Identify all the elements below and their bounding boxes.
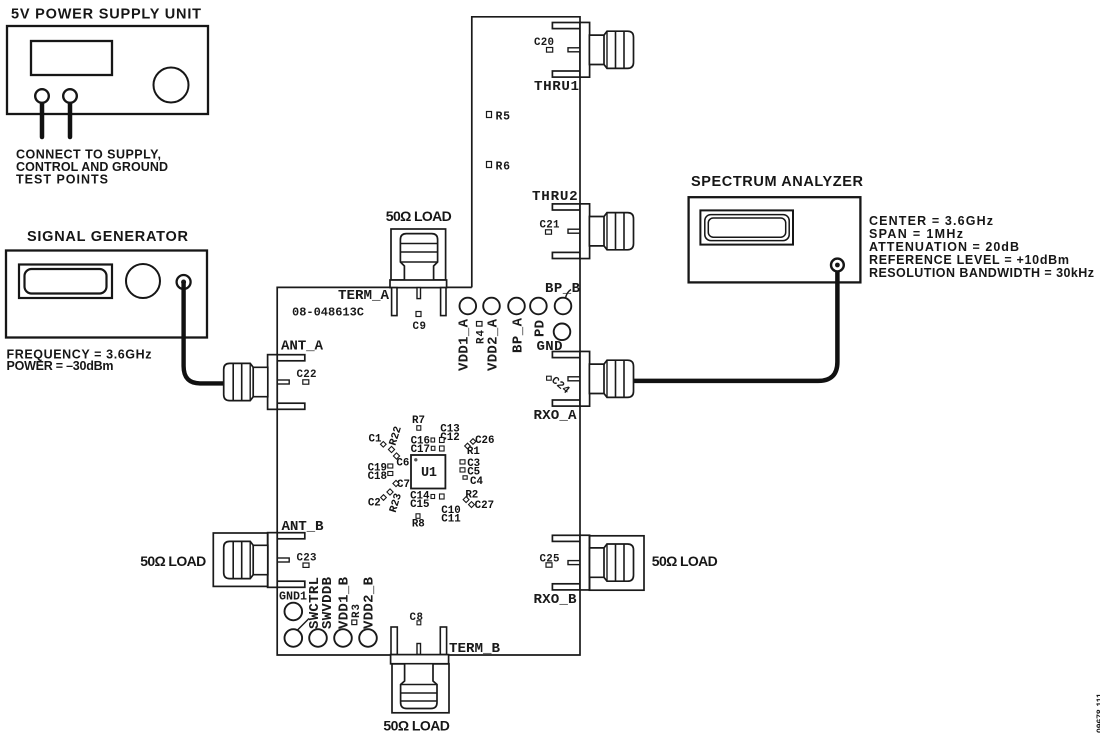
svg-text:C15: C15 — [410, 499, 429, 511]
signal generator RF output connector — [177, 275, 191, 289]
figure number — [1095, 693, 1100, 733]
svg-text:SIGNAL GENERATOR: SIGNAL GENERATOR — [27, 229, 189, 245]
test point VDD1_B — [334, 629, 352, 647]
cable from RXO_A to spectrum analyzer — [634, 266, 838, 381]
svg-text:SWVDDB: SWVDDB — [320, 576, 336, 629]
BP_B leader line — [566, 290, 572, 298]
svg-text:R8: R8 — [412, 519, 425, 531]
svg-text:C1: C1 — [369, 434, 382, 446]
svg-text:R5: R5 — [496, 111, 511, 124]
test point VDD1_A — [460, 298, 477, 315]
SMA connector THRU2 — [552, 204, 633, 259]
SMA connector RXO_B — [552, 535, 633, 590]
TERM_A pin — [417, 288, 421, 299]
svg-text:C27: C27 — [475, 500, 494, 512]
cluster pads — [380, 426, 475, 519]
pad C1 — [380, 441, 386, 447]
board outline — [277, 17, 580, 655]
pads C26 — [465, 443, 471, 449]
test point GND1 — [285, 603, 303, 621]
test point VDD2_A — [483, 298, 500, 315]
pads R2 C27 — [463, 497, 469, 503]
TERM_A barrel — [400, 234, 437, 281]
svg-text:BP_B: BP_B — [545, 281, 581, 297]
op-amp U1 — [411, 455, 445, 489]
TERM_B bracket bar — [391, 655, 449, 664]
terminal 1 — [35, 89, 49, 103]
svg-text:ANT_A: ANT_A — [281, 339, 323, 355]
resistor R6 — [487, 162, 492, 168]
capacitor C24 (rotated label) — [548, 375, 571, 397]
SMA connector RXO_A — [552, 351, 633, 406]
svg-text:50Ω LOAD: 50Ω LOAD — [652, 553, 718, 569]
pads C7 chain — [393, 480, 399, 486]
spectrum analyzer display — [700, 210, 793, 244]
svg-text:C17: C17 — [411, 444, 430, 456]
resistor R3 — [351, 604, 363, 618]
svg-text:50Ω LOAD: 50Ω LOAD — [383, 718, 450, 734]
pads C19 C18 — [388, 464, 393, 468]
svg-text:5V POWER SUPPLY UNIT: 5V POWER SUPPLY UNIT — [11, 7, 201, 23]
svg-text:RXO_A: RXO_A — [534, 408, 577, 424]
svg-text:RESOLUTION BANDWIDTH = 30kHz: RESOLUTION BANDWIDTH = 30kHz — [869, 266, 1094, 280]
TERM_B posts — [391, 627, 397, 655]
pads C16 C17 — [431, 438, 435, 442]
svg-text:GND1: GND1 — [279, 590, 307, 604]
power supply knob — [154, 68, 189, 103]
spectrum analyzer input connector — [831, 259, 844, 272]
SMA connector ANT_A — [224, 355, 305, 410]
svg-text:ANT_B: ANT_B — [282, 519, 324, 535]
svg-text:50Ω LOAD: 50Ω LOAD — [386, 208, 452, 224]
svg-text:SPECTRUM ANALYZER: SPECTRUM ANALYZER — [691, 174, 864, 190]
pads C14 C15 — [431, 495, 435, 499]
svg-text:TERM_B: TERM_B — [449, 641, 500, 657]
resistor R23 — [388, 492, 405, 514]
svg-text:C2: C2 — [368, 498, 381, 510]
resistor R22 — [388, 425, 405, 447]
TERM_B pin — [417, 644, 421, 655]
test point BP_A — [508, 298, 525, 315]
svg-text:CENTER = 3.6GHz: CENTER = 3.6GHz — [869, 214, 993, 228]
test point VDD2_B — [359, 629, 377, 647]
svg-text:09678-111: 09678-111 — [1095, 693, 1100, 733]
signal generator knob — [126, 264, 160, 298]
50 ohm load box TERM_A — [391, 229, 446, 280]
50 ohm load box on RXO_B — [589, 536, 644, 590]
power supply unit box — [7, 26, 208, 114]
svg-text:08-048613C: 08-048613C — [292, 306, 364, 320]
wire from terminal 2 — [68, 98, 73, 137]
TERM_A bracket bar — [390, 280, 447, 288]
pad R7 — [417, 426, 421, 431]
svg-text:BP_A: BP_A — [511, 317, 527, 353]
test point PD — [530, 298, 547, 315]
capacitor C9 — [416, 312, 421, 317]
leader line to SWCTRL — [297, 619, 309, 631]
test point BP_B — [555, 298, 572, 315]
pad C4 — [463, 476, 467, 479]
wire from terminal 1 — [40, 98, 45, 137]
svg-text:C7: C7 — [397, 479, 410, 491]
SMA connector ANT_B — [224, 533, 305, 588]
test point SWCTRL — [285, 629, 303, 647]
svg-text:C18: C18 — [368, 471, 387, 483]
svg-text:C11: C11 — [441, 513, 461, 525]
svg-text:U1: U1 — [421, 466, 437, 481]
svg-text:R6: R6 — [496, 161, 511, 174]
SMA connector THRU1 — [552, 22, 633, 77]
cable from signal generator to ANT_A — [184, 282, 224, 383]
50 ohm load box TERM_B — [392, 664, 449, 713]
resistor R5 — [487, 112, 492, 118]
signal generator box — [6, 251, 207, 338]
svg-text:ATTENUATION = 20dB: ATTENUATION = 20dB — [869, 240, 1019, 254]
svg-text:VDD2_A: VDD2_A — [486, 318, 502, 371]
svg-text:R22: R22 — [388, 425, 405, 447]
pads R22 chain — [388, 446, 394, 452]
svg-text:THRU2: THRU2 — [532, 189, 578, 205]
svg-text:PD: PD — [532, 320, 548, 337]
test point SWVDDB — [309, 629, 327, 647]
svg-text:C6: C6 — [396, 458, 409, 470]
signal generator display — [19, 265, 112, 299]
svg-text:RXO_B: RXO_B — [534, 592, 577, 608]
spectrum analyzer box — [689, 197, 861, 282]
test point GND — [554, 324, 571, 341]
pads C3 C5 — [460, 460, 465, 464]
power supply display — [31, 41, 112, 75]
50 ohm load box on ANT_B — [213, 533, 267, 586]
TERM_B barrel — [401, 665, 437, 709]
svg-text:VDD1_B: VDD1_B — [337, 576, 353, 629]
svg-text:SPAN = 1MHz: SPAN = 1MHz — [869, 227, 963, 241]
svg-text:GND: GND — [537, 339, 563, 355]
svg-text:C9: C9 — [413, 321, 427, 333]
svg-text:C4: C4 — [470, 476, 483, 488]
pad R8 — [416, 514, 420, 519]
svg-text:VDD2_B: VDD2_B — [362, 576, 378, 629]
resistor R4 — [475, 329, 487, 344]
TERM_A posts — [392, 288, 397, 316]
svg-text:REFERENCE LEVEL = +10dBm: REFERENCE LEVEL = +10dBm — [869, 253, 1069, 267]
svg-text:TEST POINTS: TEST POINTS — [16, 173, 108, 187]
svg-text:THRU1: THRU1 — [534, 79, 579, 95]
svg-text:50Ω LOAD: 50Ω LOAD — [140, 553, 206, 569]
svg-text:POWER = –30dBm: POWER = –30dBm — [7, 359, 114, 373]
svg-text:TERM_A: TERM_A — [338, 288, 389, 304]
terminal 2 — [63, 89, 77, 103]
svg-text:VDD1_A: VDD1_A — [457, 318, 473, 371]
